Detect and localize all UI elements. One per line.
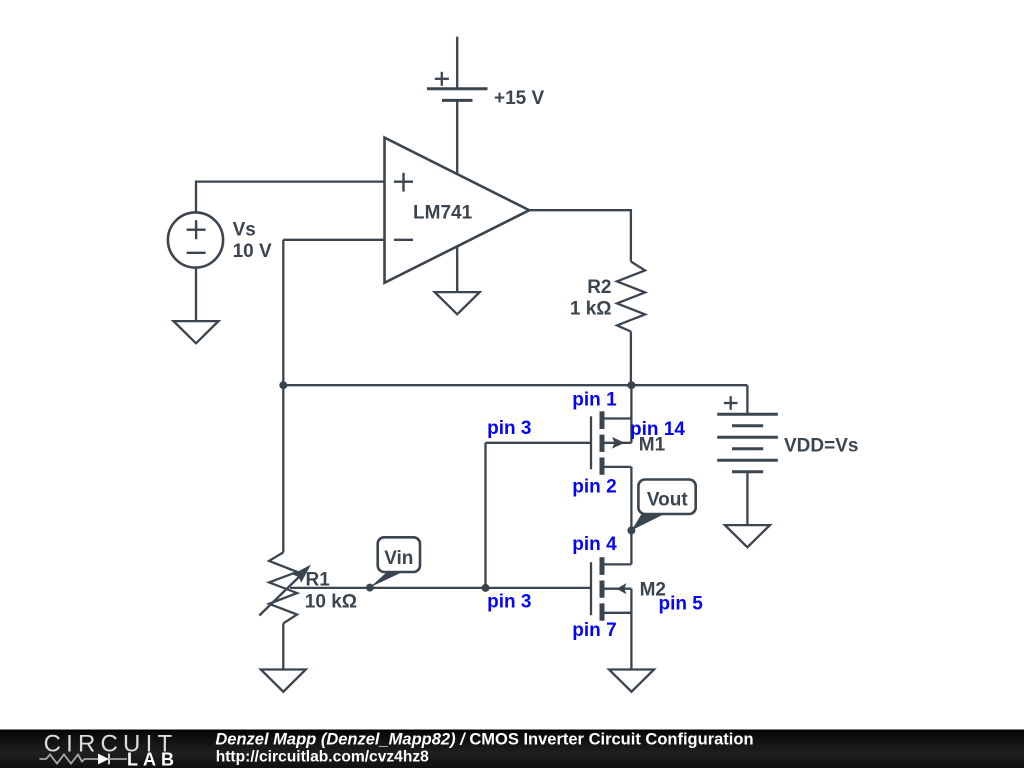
voltage source V1 Vs	[168, 212, 223, 267]
wire inverting input	[283, 239, 384, 241]
node junction feedback	[279, 381, 287, 389]
svg-text:pin 14: pin 14	[630, 419, 685, 440]
svg-text:R2: R2	[587, 277, 611, 298]
svg-text:1 kΩ: 1 kΩ	[570, 298, 612, 319]
wire V1 to ground	[195, 268, 197, 322]
wire M1 gate	[486, 442, 592, 444]
wire op-amp output	[529, 210, 631, 261]
wire battery V2 to op-amp V+	[456, 100, 458, 174]
wire Vout to M2 drain	[630, 530, 632, 564]
CircuitLab logo squiggle and diode	[40, 754, 128, 765]
ground below battery V3	[725, 525, 770, 547]
svg-text:pin 3: pin 3	[487, 418, 531, 439]
svg-text:pin 2: pin 2	[572, 477, 616, 498]
svg-text:LM741: LM741	[413, 203, 473, 224]
net flag Vout	[631, 480, 695, 531]
svg-text:Vs: Vs	[233, 219, 256, 240]
wire feedback bus	[283, 384, 747, 386]
battery V2 +15 V top lead wire	[456, 37, 458, 89]
wire R2 bottom	[630, 332, 632, 386]
svg-text:pin 7: pin 7	[572, 620, 616, 641]
svg-text:10 V: 10 V	[233, 241, 272, 262]
ground below M2	[609, 670, 654, 692]
wire R1 top lead	[282, 385, 284, 552]
svg-text:pin 3: pin 3	[487, 591, 531, 612]
svg-text:LAB: LAB	[127, 750, 179, 768]
svg-text:Vin: Vin	[384, 548, 413, 569]
potentiometer R1	[259, 552, 311, 623]
ground below R1	[261, 670, 306, 692]
op-amp U1 LM741	[385, 138, 530, 283]
node junction bus R2	[627, 381, 635, 389]
transistor M1	[591, 411, 631, 475]
battery V3 VDD=Vs	[717, 396, 778, 472]
node Vin junction	[366, 584, 374, 592]
wire bus to battery VDD	[746, 385, 748, 414]
svg-text:VDD=Vs: VDD=Vs	[784, 435, 858, 456]
wire R1 bottom to ground	[282, 623, 284, 669]
resistor R2	[617, 262, 645, 332]
wire pin3 riser	[484, 443, 486, 588]
svg-text:pin 5: pin 5	[659, 594, 704, 615]
wire bus to M1 drain and body	[630, 385, 632, 443]
ground below op-amp	[435, 292, 480, 314]
net flag Vin	[370, 537, 420, 587]
wire op-amp V- to ground	[456, 246, 458, 292]
ground below V1	[174, 321, 219, 343]
wire M1 source to Vout node	[630, 467, 632, 531]
wire M2 body to source	[630, 589, 632, 613]
wire feedback riser	[282, 240, 284, 385]
transistor M2	[591, 557, 631, 621]
svg-text:Vout: Vout	[647, 490, 688, 511]
svg-text:+15 V: +15 V	[494, 88, 545, 109]
svg-text:pin 4: pin 4	[572, 534, 617, 555]
node Vout junction	[627, 526, 635, 534]
wire battery V3 to ground	[746, 472, 748, 525]
battery V2 +15 V	[427, 72, 488, 101]
svg-text:10 kΩ: 10 kΩ	[305, 592, 357, 613]
node junction pin3 riser	[482, 584, 490, 592]
wire M2 source to ground	[630, 613, 632, 670]
svg-text:pin 1: pin 1	[572, 390, 617, 411]
svg-text:Denzel Mapp (Denzel_Mapp82) /: Denzel Mapp (Denzel_Mapp82) / CMOS Inver…	[215, 730, 753, 748]
wire R1 wiper bus	[290, 587, 591, 589]
wire non-inverting input	[196, 182, 385, 213]
svg-text:http://circuitlab.com/cvz4hz8: http://circuitlab.com/cvz4hz8	[216, 748, 429, 765]
